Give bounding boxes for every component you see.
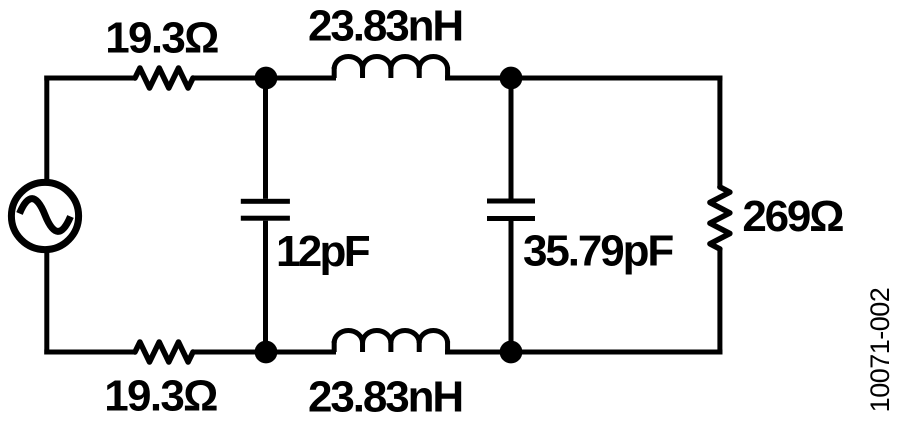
capacitor C1 bottom plate	[241, 216, 290, 221]
label 10071-002 figure number	[865, 288, 895, 413]
AC source V1 circle	[11, 182, 78, 249]
AC source V1 sine wave	[20, 199, 71, 232]
resistor R3 269 ohm right	[710, 187, 730, 249]
label 19.3 ohm top	[105, 14, 218, 63]
svg-text:35.79pF: 35.79pF	[523, 227, 673, 276]
svg-text:23.83nH: 23.83nH	[308, 2, 462, 51]
svg-text:12pF: 12pF	[276, 227, 370, 276]
svg-text:23.83nH: 23.83nH	[308, 373, 462, 422]
inductor L2 23.83nH bottom	[334, 330, 447, 352]
svg-text:269Ω: 269Ω	[742, 192, 843, 241]
wire C1 lower stub	[263, 221, 268, 352]
svg-text:19.3Ω: 19.3Ω	[105, 14, 218, 63]
label 23.83nH bottom	[308, 373, 462, 422]
node dot top-left	[255, 67, 278, 90]
wire left vertical upper (source to top wire)	[44, 76, 49, 184]
label 23.83nH top	[308, 2, 462, 51]
resistor R1 19.3 ohm top	[135, 68, 193, 88]
label 269 ohm	[742, 192, 843, 241]
label 19.3 ohm bottom	[104, 372, 217, 421]
wire C1 upper stub	[263, 78, 268, 199]
wire left vertical lower (source to bottom wire)	[44, 249, 49, 355]
label 35.79pF	[523, 227, 673, 276]
node dot top-right	[500, 67, 523, 90]
capacitor C1 top plate	[241, 199, 290, 204]
node dot bottom-right	[500, 341, 523, 364]
inductor L1 23.83nH top	[334, 56, 447, 78]
wire bottom-left to R2	[44, 350, 135, 355]
resistor R2 19.3 ohm bottom	[135, 342, 193, 362]
wire R2 to L2	[193, 350, 336, 355]
wire C2 upper stub	[509, 78, 514, 199]
wire top-left to R1	[44, 76, 135, 81]
wire L1 to top-right corner	[445, 76, 722, 81]
wire R1 to L1	[193, 76, 336, 81]
wire L2 to bottom-right corner	[445, 350, 722, 355]
node dot bottom-left	[255, 341, 278, 364]
wire right vertical lower (R3 to bottom wire)	[717, 249, 722, 355]
capacitor C2 top plate	[487, 199, 535, 204]
capacitor C2 bottom plate	[487, 216, 535, 221]
wire C2 lower stub	[509, 221, 514, 352]
svg-text:19.3Ω: 19.3Ω	[104, 372, 217, 421]
label 12pF	[276, 227, 370, 276]
svg-text:10071-002: 10071-002	[865, 288, 895, 413]
wire right vertical upper (top wire to R3)	[717, 76, 722, 188]
